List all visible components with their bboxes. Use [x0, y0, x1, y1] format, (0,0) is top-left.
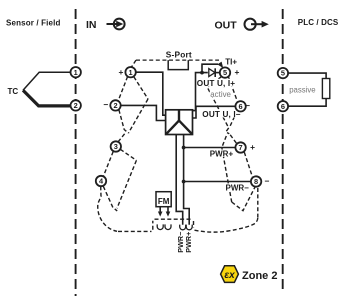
svg-text:OUT U, I−: OUT U, I−: [202, 110, 240, 119]
segment t2 to notch: [119, 110, 128, 133]
FM pin arrows to DIN rail: [159, 207, 161, 213]
svg-text:5: 5: [281, 69, 285, 78]
svg-text:2: 2: [74, 101, 78, 110]
FM functional earth box: [156, 192, 171, 207]
segment t7-t8: [244, 152, 252, 177]
field boundary dashed line left: [75, 9, 77, 296]
housing outline dashed band: [98, 60, 258, 232]
segment t6 to notch: [230, 111, 237, 126]
svg-text:OUT: OUT: [215, 20, 238, 32]
svg-text:1: 1: [74, 68, 78, 77]
svg-text:5: 5: [223, 68, 227, 77]
svg-text:IN: IN: [86, 19, 97, 31]
svg-text:6: 6: [239, 102, 243, 111]
isolation amplifier box: [166, 110, 193, 135]
wire device t1 to isolator: [136, 72, 166, 115]
plc boundary dashed line right: [282, 9, 284, 291]
wire PWR+ to terminal 7: [184, 147, 236, 149]
svg-text:PWR+: PWR+: [210, 150, 234, 159]
terminal 7 device: [235, 142, 245, 152]
svg-text:S-Port: S-Port: [166, 50, 192, 60]
segment t1 to corner: [134, 77, 148, 99]
segment t1-t2: [118, 77, 127, 101]
wire isolator to terminal 6 (OUT U, I-): [193, 106, 236, 118]
leg left from isolator to PWR- stub: [176, 135, 183, 225]
terminal 1 field: [71, 67, 81, 77]
svg-text:PLC / DCS: PLC / DCS: [298, 18, 339, 27]
leg right from isolator to PWR+ stub: [184, 135, 190, 225]
svg-text:−: −: [103, 100, 108, 110]
segment t4 down to bottom corner: [98, 186, 117, 231]
IN icon: [107, 19, 125, 30]
svg-text:+: +: [250, 142, 255, 152]
svg-text:Sensor / Field: Sensor / Field: [6, 18, 61, 27]
TI+ tap wire: [202, 64, 218, 72]
junction node PWR-: [182, 180, 186, 184]
label OUT U, I+: [197, 79, 238, 87]
segment t3-t4: [103, 152, 113, 177]
svg-text:TI+: TI+: [225, 57, 237, 66]
segment S-Port to t1: [131, 60, 136, 67]
bus contacts under PWR stubs: [180, 225, 186, 230]
wire device t2 to isolator: [121, 105, 166, 120]
svg-text:TC: TC: [8, 87, 19, 96]
terminal 5 device: [220, 67, 230, 77]
segment t5-t6: [229, 77, 238, 101]
label PWR+: [209, 150, 235, 158]
PLC passive load circuit: [288, 73, 326, 78]
DIN rail bus contacts under FM: [157, 224, 163, 229]
terminal 5 plc: [278, 68, 288, 78]
terminal 1 device: [125, 67, 135, 77]
svg-text:OUT U, I+: OUT U, I+: [197, 79, 235, 88]
wire isolator to diode / terminal 5 (OUT U, I+): [193, 73, 208, 111]
TI+ tap junction: [200, 71, 204, 75]
svg-text:active: active: [210, 90, 231, 99]
OUT icon: [245, 19, 269, 30]
label OUT U, I-: [202, 109, 240, 117]
svg-text:2: 2: [113, 101, 117, 110]
segment t4 to notch2: [103, 186, 117, 211]
svg-text:8: 8: [254, 177, 258, 186]
terminal 2 device: [110, 100, 120, 110]
terminal 3 device: [111, 141, 121, 151]
svg-text:3: 3: [114, 142, 118, 151]
diode D1: [209, 69, 215, 77]
svg-text:passive: passive: [289, 85, 315, 94]
svg-text:+: +: [235, 67, 240, 77]
svg-text:−: −: [245, 101, 250, 111]
svg-text:−: −: [265, 176, 270, 186]
svg-text:Zone 2: Zone 2: [242, 270, 277, 282]
S-Port connector notch: [168, 60, 188, 70]
segment t5 down-left edge: [207, 77, 228, 128]
segment notch down to t8 notch: [222, 136, 232, 202]
segment t3 to corner2: [120, 149, 136, 160]
segment notch to t7: [230, 135, 237, 144]
svg-text:PWR−: PWR−: [226, 184, 250, 193]
svg-text:FM: FM: [158, 197, 170, 206]
junction node PWR+: [182, 146, 186, 150]
terminal 8 device: [251, 176, 261, 186]
svg-text:+: +: [118, 67, 123, 77]
notch under t6: [226, 128, 230, 134]
label active: [210, 89, 230, 97]
svg-text:1: 1: [129, 68, 133, 77]
svg-text:6: 6: [281, 102, 285, 111]
segment corner2 to notch2: [117, 160, 136, 208]
svg-text:7: 7: [239, 143, 243, 152]
terminal 6 device: [235, 101, 245, 111]
bottom outline under device: [118, 230, 152, 232]
segment notch to t3: [118, 134, 124, 142]
terminal 6 plc: [278, 101, 288, 111]
svg-text:PWR+: PWR+: [184, 232, 193, 253]
terminal 4 device: [96, 176, 106, 186]
terminal 2 field: [71, 100, 81, 110]
notch under t8: [232, 187, 255, 211]
wire PWR- to terminal 8: [184, 181, 251, 183]
Ex hexagon Zone 2 marker: [221, 266, 239, 283]
svg-text:εx: εx: [224, 270, 235, 281]
label PWR-: [225, 184, 251, 192]
S-Port dashed line with arrow to terminal 5: [136, 59, 219, 61]
segment corner to notch: [128, 99, 148, 133]
